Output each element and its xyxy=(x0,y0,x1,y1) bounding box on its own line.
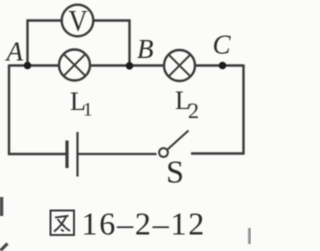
svg-text:2: 2 xyxy=(188,98,199,123)
svg-text:C: C xyxy=(213,30,232,60)
svg-text:S: S xyxy=(166,154,184,190)
svg-text:B: B xyxy=(137,34,154,64)
svg-text:A: A xyxy=(5,37,24,67)
svg-text:1: 1 xyxy=(83,100,93,121)
svg-text:16–2–12: 16–2–12 xyxy=(82,206,207,242)
svg-text:V: V xyxy=(68,5,88,38)
